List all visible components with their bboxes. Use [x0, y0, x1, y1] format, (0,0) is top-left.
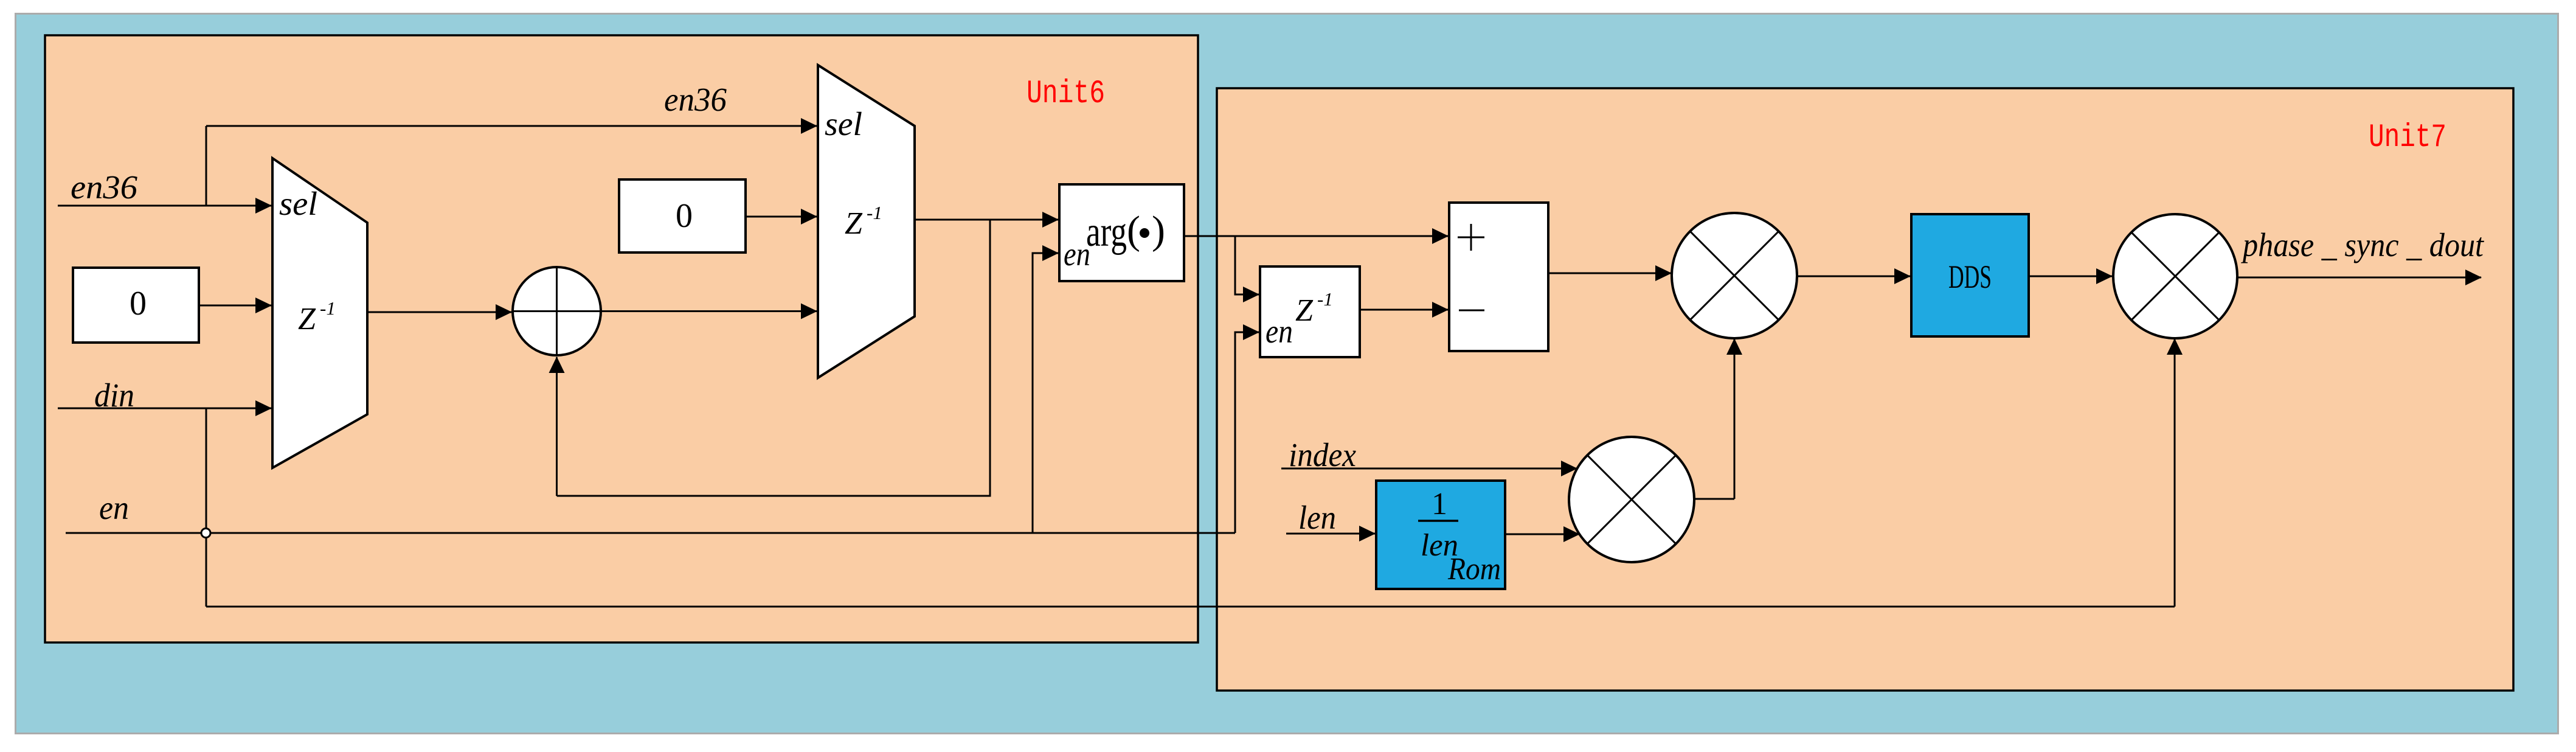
- svg-text:en: en: [1265, 313, 1293, 350]
- svg-text:): ): [1152, 208, 1165, 252]
- svg-text:-1: -1: [867, 202, 882, 223]
- svg-text:en36: en36: [664, 81, 727, 118]
- svg-text:arg: arg: [1086, 209, 1127, 256]
- svg-text:en36: en36: [71, 169, 138, 206]
- svg-text:sel: sel: [279, 185, 317, 222]
- svg-text:Unit7: Unit7: [2369, 119, 2446, 156]
- svg-text:1: 1: [1432, 487, 1447, 521]
- svg-text:len: len: [1298, 499, 1336, 536]
- svg-text:-1: -1: [1317, 288, 1333, 310]
- svg-text:index: index: [1289, 436, 1357, 473]
- svg-text:Z: Z: [298, 302, 316, 336]
- svg-text:Z: Z: [845, 206, 863, 241]
- svg-text:Z: Z: [1295, 293, 1314, 328]
- svg-text:sel: sel: [825, 105, 862, 142]
- svg-text:DDS: DDS: [1948, 259, 1992, 295]
- svg-text:Rom: Rom: [1447, 552, 1501, 587]
- svg-text:-1: -1: [320, 298, 336, 319]
- svg-text:en: en: [99, 489, 129, 526]
- svg-text:0: 0: [676, 197, 693, 235]
- svg-text:0: 0: [130, 285, 147, 322]
- svg-text:Unit6: Unit6: [1027, 75, 1105, 113]
- svg-text:(: (: [1127, 208, 1140, 252]
- svg-text:phase _ sync _ dout: phase _ sync _ dout: [2240, 226, 2484, 263]
- svg-text:din: din: [94, 377, 134, 414]
